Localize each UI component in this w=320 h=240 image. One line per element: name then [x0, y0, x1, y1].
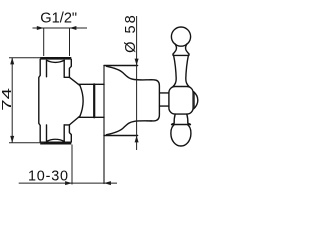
- diagonal port to boss bottom: [69, 116, 80, 125]
- 74 dimension line: [11, 58, 13, 143]
- escutcheon bottom ogee curve: [107, 121, 153, 135]
- cuff bottom edge: [173, 54, 189, 56]
- bottom ball: [171, 125, 191, 146]
- dimension lines group: [9, 16, 137, 185]
- housing bottom edge: [78, 116, 104, 118]
- arrowheads: [10, 26, 138, 185]
- G1/2 dimension line: [33, 27, 88, 29]
- boss sphere arc: [80, 86, 83, 116]
- G1/2 left extension line: [43, 28, 45, 56]
- top waist right: [186, 44, 189, 54]
- hub index cap: [194, 92, 198, 109]
- escutcheon dome face: [150, 80, 159, 121]
- 74 top extension line: [9, 57, 42, 59]
- cuff left tip: [172, 54, 174, 56]
- top waist: [173, 44, 176, 54]
- valve body bottom face: [40, 142, 71, 145]
- body left outer edge: [39, 59, 40, 142]
- svg-text:Ø 58: Ø 58: [123, 13, 139, 53]
- stem escutcheon to hub bottom line: [160, 105, 169, 107]
- arrow G1/2 right: [70, 26, 77, 30]
- body right edge lower port: [69, 125, 71, 142]
- spindle column right: [186, 55, 189, 86]
- body right edge upper port: [69, 59, 71, 77]
- 10-30 dimension line: [19, 182, 117, 184]
- port bottom concave dip arc: [47, 139, 65, 141]
- arrow dia58 top: [135, 59, 139, 66]
- bottom neck left: [172, 114, 176, 124]
- arrow 10-30 left: [65, 181, 72, 185]
- bottom neck right: [187, 114, 191, 124]
- arrow dia58 bottom: [135, 136, 139, 143]
- cuff right tip: [188, 54, 190, 56]
- top ball: [171, 27, 190, 46]
- svg-text:G1/2": G1/2": [40, 10, 77, 26]
- thread end tick bottom-right: [64, 124, 69, 126]
- valve body top face: [40, 57, 71, 60]
- arrow 10-30 right: [104, 181, 111, 185]
- svg-text:10-30: 10-30: [28, 169, 69, 185]
- wall / escutcheon back line: [103, 66, 105, 184]
- housing top edge: [78, 83, 104, 85]
- escutcheon top edge: [104, 65, 138, 67]
- G1/2 right extension line: [69, 28, 71, 56]
- diagonal port to boss top: [69, 77, 80, 85]
- thread end tick top-right: [64, 76, 69, 78]
- bottom cuff edge: [172, 124, 191, 126]
- arrow 74 bottom: [10, 136, 14, 143]
- arrow 74 top: [10, 58, 14, 65]
- port inner bore line bottom-right: [63, 125, 65, 141]
- port inner bore line bottom-left: [46, 125, 48, 141]
- 74 bottom extension line: [9, 142, 44, 144]
- hub cap chord: [193, 92, 195, 108]
- port inner bore line top-right: [63, 61, 65, 78]
- 10-30 left extension line: [71, 145, 73, 185]
- handle hub: [169, 87, 193, 115]
- arrow G1/2 left: [37, 26, 44, 30]
- housing joint vertical: [93, 84, 95, 117]
- spindle column left: [173, 55, 176, 86]
- stem escutcheon to hub top line: [160, 92, 169, 94]
- port top concave dip arc: [47, 60, 65, 62]
- escutcheon bottom edge: [104, 135, 138, 137]
- dia 58 dimension line: [136, 16, 138, 150]
- port inner bore line top-left: [46, 61, 48, 77]
- escutcheon top ogee curve: [107, 66, 153, 80]
- svg-text:74: 74: [0, 88, 14, 111]
